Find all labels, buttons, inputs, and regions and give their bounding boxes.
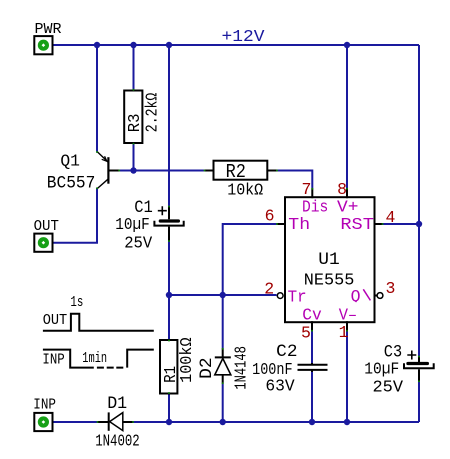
resistor R2 [204,161,278,180]
wire PWR branch to Q1 emitter [96,45,98,151]
junction trigger node x222.7 [220,292,226,298]
svg-text:5: 5 [301,324,311,343]
wire base node to R2 left [120,170,205,172]
svg-text:V+: V+ [337,198,359,217]
svg-text:RST: RST [340,215,374,234]
junction top rail x169 [166,42,172,48]
svg-text:1N4148: 1N4148 [232,346,251,390]
wire rail to pin8 [346,45,348,188]
svg-text:25V: 25V [373,377,404,396]
pin name Q inverted [351,287,361,306]
connector pad INP [34,413,52,431]
waveform OUT pulse [43,314,154,331]
junction top rail x97 [94,42,100,48]
svg-text:6: 6 [265,206,275,225]
svg-text:63V: 63V [265,377,294,396]
svg-text:INP: INP [33,397,56,414]
svg-text:Dis: Dis [302,198,328,217]
IC U1 NE555 [285,197,375,322]
svg-text:4: 4 [386,208,396,227]
svg-text:3: 3 [386,279,396,298]
diode D2 [215,349,231,384]
svg-text:NE555: NE555 [304,270,355,289]
wire top +12V rail [53,44,419,46]
junction top rail x347 [344,42,350,48]
svg-text:1N4002: 1N4002 [95,432,140,451]
pin 6 stub [277,223,285,225]
pin 1 stub [346,321,348,331]
junction ground rail x347 [344,419,350,425]
wire bottom rail right [133,421,419,423]
svg-text:D2: D2 [197,357,217,379]
svg-text:Tr: Tr [288,288,307,307]
pin end green dots [96,89,420,423]
wire pin4 to right rail [383,223,419,225]
svg-text:Th: Th [288,215,310,234]
junction ground rail x312 [309,419,315,425]
waveform INP pulse [43,350,154,368]
svg-text:U1: U1 [318,251,340,270]
svg-text:100kΩ: 100kΩ [177,337,196,383]
wire pin5 to C2 top [311,331,313,364]
svg-text:1: 1 [339,323,349,342]
svg-text:8: 8 [337,180,347,199]
svg-text:1min: 1min [82,350,107,367]
wire Q1 collector to OUT pad [53,189,97,243]
transistor Q1 [97,152,119,189]
capacitor C1 [154,206,183,242]
junction ground rail x222.7 [220,419,226,425]
svg-text:INP: INP [42,352,64,369]
wire R2 right to pin7 [278,171,313,189]
svg-text:1s: 1s [70,294,83,311]
svg-text:D1: D1 [107,394,127,414]
wire R1 bottom to ground rail [168,394,170,423]
svg-text:Q1: Q1 [60,151,80,170]
svg-text:2.2kΩ: 2.2kΩ [142,93,161,133]
wire R3 bottom to base node [133,143,135,171]
svg-text:10kΩ: 10kΩ [227,180,263,199]
connector pad OUT [34,234,52,252]
wire right rail upper [418,45,420,224]
capacitor C3 [404,351,434,382]
connector pad PWR [34,36,52,54]
wire pin6 to trigger node [223,224,277,295]
wire rail to R3 top [133,45,135,91]
junction trigger node x169 [166,292,172,298]
svg-text:25V: 25V [124,233,152,252]
svg-text:Cv: Cv [302,306,322,325]
svg-text:BC557: BC557 [47,173,96,193]
resistor R1 [160,340,177,394]
svg-text:10µF: 10µF [115,215,150,234]
pin 3 circle [375,295,378,297]
wire bottom rail left to INP pad [53,421,97,423]
pin 8 stub [346,188,348,198]
svg-text:10µF: 10µF [364,360,399,379]
junction ground rail x169 [166,419,172,425]
wire rail to C1 top [168,45,170,206]
resistor R3 [124,91,142,144]
svg-text:+12V: +12V [222,27,265,46]
capacitor C2 [298,363,328,372]
svg-text:C2: C2 [276,343,297,362]
pin 5 stub [311,321,313,331]
svg-text:V–: V– [339,306,358,325]
svg-text:PWR: PWR [35,21,62,38]
wire right rail to C3 top [418,224,420,356]
wire C2 bottom to ground rail [311,372,313,422]
junction pin4 right rail [416,221,422,227]
diode D1 [97,412,133,430]
svg-text:7: 7 [302,180,312,199]
svg-text:OUT: OUT [43,312,67,329]
wire D2 bottom to ground rail [222,384,224,423]
pin 2 circle [277,293,283,299]
wire pin1 to ground rail [346,331,348,423]
junction base node [130,167,136,173]
wire C1 bottom to R1 top [168,242,170,340]
wire trigger node to D2 top [222,295,224,349]
wire trigger node to pin2 [169,294,277,296]
svg-text:OUT: OUT [34,218,59,235]
pin 7 stub [311,188,313,198]
wire C3 bottom to ground rail [418,382,420,422]
junction top rail x133.5 [130,42,136,48]
svg-text:2: 2 [264,280,274,299]
pin 4 stub [375,223,384,225]
